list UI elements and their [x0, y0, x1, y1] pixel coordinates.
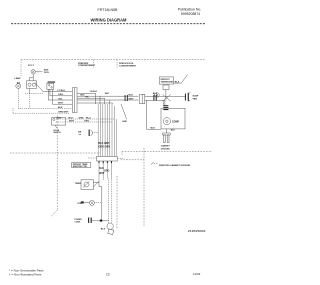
- svg-text:218528301: 218528301: [188, 229, 206, 233]
- svg-text:WHT: WHT: [64, 112, 70, 114]
- svg-text:DENOTES CABINET GROUND: DENOTES CABINET GROUND: [159, 164, 191, 167]
- cabinet light switch box: [52, 118, 66, 126]
- defrost heater: [77, 203, 82, 205]
- svg-text:CABINET: CABINET: [161, 144, 171, 147]
- svg-text:COMP: COMP: [172, 121, 179, 123]
- cabinet dashed jog: [121, 159, 144, 161]
- wire GRN dotted from lamp: [18, 107, 72, 109]
- defrost thermostat box: [159, 77, 173, 84]
- fresh food compartment label: [119, 63, 137, 68]
- cabinet pass-through connector: [97, 157, 118, 162]
- cold control body: [47, 83, 54, 89]
- svg-text:ADAPTIVE CTRL: ADAPTIVE CTRL: [73, 165, 88, 168]
- splice bars left: [124, 95, 127, 101]
- wire bulb to door switch: [32, 74, 34, 81]
- wire WHT: [51, 89, 53, 104]
- main connector block: [72, 88, 77, 113]
- svg-text:FZ LT: FZ LT: [28, 65, 34, 67]
- svg-text:ORG: ORG: [58, 94, 63, 96]
- svg-text:GRN: GRN: [79, 117, 84, 119]
- svg-text:FAN: FAN: [193, 97, 198, 100]
- svg-text:GRN: GRN: [58, 112, 63, 114]
- svg-text:11/03: 11/03: [193, 272, 201, 276]
- harness below pass-through: [99, 161, 111, 183]
- wire to wattage note: [35, 71, 42, 73]
- svg-text:WHT: WHT: [99, 172, 105, 175]
- svg-text:WIRING DIAGRAM: WIRING DIAGRAM: [91, 17, 128, 22]
- svg-text:COMPARTMENT: COMPARTMENT: [119, 65, 137, 68]
- svg-text:5995208874: 5995208874: [181, 12, 201, 16]
- wires right of inline connector: [145, 95, 185, 97]
- svg-text:BLU: BLU: [86, 117, 91, 119]
- cabinet dashed mid right: [122, 151, 212, 153]
- svg-text:WHT: WHT: [58, 103, 64, 105]
- compartment notch dashes: [93, 60, 95, 68]
- cabinet dashed vertical right: [143, 148, 145, 227]
- svg-text:WHT: WHT: [105, 93, 110, 95]
- svg-text:ORG: ORG: [84, 121, 89, 123]
- wire ORG: [49, 89, 51, 95]
- svg-text:YEL: YEL: [58, 98, 63, 100]
- svg-text:BLK: BLK: [58, 107, 63, 109]
- cabinet top dashed line: [21, 59, 206, 61]
- wire YEL: [47, 89, 49, 100]
- svg-text:THERMOSTAT: THERMOSTAT: [161, 81, 175, 84]
- compressor enclosure: [161, 108, 185, 129]
- dotted wire run: [25, 92, 43, 94]
- svg-text:WHT: WHT: [129, 98, 135, 100]
- crossed wires: [163, 95, 171, 102]
- relay box: [163, 85, 169, 90]
- wire from thermostat: [173, 82, 181, 84]
- svg-text:CORD: CORD: [75, 221, 81, 223]
- svg-text:LT BLU: LT BLU: [58, 90, 66, 92]
- wire down to compressor: [146, 100, 148, 129]
- plug: [108, 229, 114, 235]
- overload protector bars: [163, 105, 168, 106]
- freezer light label: [28, 65, 34, 67]
- harness drops: [95, 93, 97, 104]
- cabinet dashed mid left: [10, 152, 100, 154]
- svg-text:BLK: BLK: [151, 128, 156, 130]
- diagonal wire to cold control: [35, 82, 44, 92]
- svg-text:TIMER: TIMER: [75, 183, 82, 185]
- ground clip: [165, 129, 167, 133]
- svg-text:FRT18LN5B: FRT18LN5B: [98, 8, 119, 12]
- wire row lower 2: [56, 121, 112, 123]
- lamp label: [15, 77, 22, 80]
- svg-text:EVAP: EVAP: [193, 94, 199, 97]
- svg-text:13: 13: [106, 272, 110, 276]
- cold control cap bar: [48, 82, 56, 83]
- wire harness band: [98, 104, 116, 157]
- freezer compartment label: [78, 63, 96, 67]
- capacitor symbol: [89, 130, 90, 137]
- connector right wires: [77, 92, 96, 94]
- cabinet left dashed wall: [20, 60, 22, 76]
- svg-text:BLU: BLU: [69, 117, 74, 119]
- svg-text:120V: 120V: [44, 72, 50, 74]
- harness labels dark: [99, 142, 111, 148]
- svg-text:BLK: BLK: [101, 228, 106, 230]
- cabinet dashed vertical mid: [116, 176, 118, 229]
- svg-text:† = Non-Illustrated Parts: † = Non-Illustrated Parts: [9, 272, 42, 276]
- thermostat symbol: [78, 130, 82, 136]
- timer motor assembly: [81, 180, 94, 190]
- door switch wire down: [29, 89, 31, 94]
- strain relief circle: [107, 223, 113, 229]
- legend arrow: [151, 162, 154, 165]
- inline connector pair: [140, 94, 145, 103]
- svg-text:BLK: BLK: [171, 130, 176, 132]
- wire run dotted lower: [12, 108, 14, 113]
- wire down from timer: [98, 183, 100, 187]
- wire LT BLU: [43, 91, 72, 93]
- svg-text:ORG GRN: ORG GRN: [99, 145, 111, 148]
- header dashed rule: [11, 23, 205, 25]
- svg-text:LAMP: LAMP: [15, 77, 22, 80]
- switch arm diagonal: [181, 75, 187, 83]
- svg-text:BLK: BLK: [129, 95, 134, 97]
- node circle: [155, 93, 160, 98]
- svg-text:GROUND: GROUND: [161, 148, 170, 150]
- svg-text:COMPARTMENT: COMPARTMENT: [78, 64, 96, 67]
- svg-text:13 BLK: 13 BLK: [90, 91, 98, 93]
- terminal bars: [75, 219, 83, 223]
- wire row LT BLU lower: [56, 118, 114, 120]
- power cord lines: [108, 179, 110, 224]
- svg-text:WHT: WHT: [69, 121, 75, 123]
- defrost timer box: [72, 163, 91, 168]
- fresh food lamp bulb: [17, 82, 19, 83]
- door switch: [27, 81, 37, 89]
- ground lead diagonal: [121, 104, 127, 119]
- svg-text:GND: GND: [122, 121, 127, 123]
- cabinet dashed vertical left: [56, 116, 58, 211]
- svg-text:BLK: BLK: [175, 81, 180, 83]
- splice terminals: [153, 95, 154, 101]
- freezer light bulb: [31, 70, 35, 74]
- compressor motor: [163, 118, 170, 125]
- lamp wire down: [17, 89, 19, 109]
- evap fan motor: [185, 94, 186, 101]
- relay lower stubs: [162, 100, 164, 105]
- svg-text:ORG: ORG: [104, 170, 110, 173]
- svg-text:Publication No.: Publication No.: [178, 8, 202, 12]
- wire label dark: [80, 91, 134, 101]
